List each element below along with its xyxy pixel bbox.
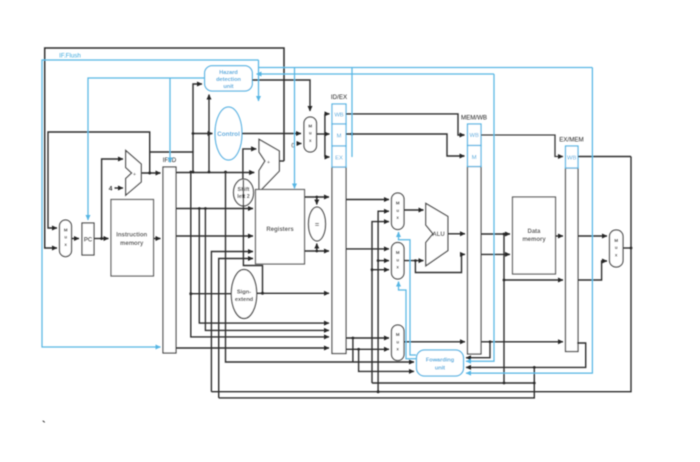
wire: branch target feedback big rectangle <box>45 48 284 248</box>
svg-text:IF.Flush: IF.Flush <box>59 53 81 60</box>
svg-text:Control: Control <box>217 131 240 138</box>
wire: immediate field to ID/EX <box>176 347 329 349</box>
svg-text:x: x <box>396 215 399 220</box>
mux forward A <box>392 193 405 230</box>
wire: sign-extend input from instruction field <box>189 292 192 295</box>
svg-text:Data: Data <box>527 229 541 235</box>
wire: mux A to ALU <box>404 209 424 211</box>
wire: zero mux fanout to WB M EX boxes <box>317 133 325 135</box>
equality comparator <box>309 207 326 241</box>
wire: rs to forwarding unit (long bottom line) <box>226 172 415 362</box>
svg-text:ID/EX: ID/EX <box>331 94 347 101</box>
svg-text:u: u <box>396 257 399 262</box>
wire: mux to PC <box>72 238 80 240</box>
svg-text:M: M <box>308 124 312 129</box>
svg-text:EX: EX <box>335 156 343 162</box>
wire: shift left 2 output to branch adder <box>243 149 256 180</box>
wire: rt field up to hazard unit bottom <box>208 95 210 173</box>
svg-text:Instruction: Instruction <box>116 233 147 239</box>
mux PC-source (far left) <box>60 220 72 257</box>
svg-text:memory: memory <box>120 241 144 247</box>
svg-text:+: + <box>267 160 270 166</box>
wire (blue): hazard IF/ID write down to IF/ID <box>169 78 171 163</box>
adder Add (PC+4) <box>126 151 142 196</box>
PC register <box>82 223 94 255</box>
wire: branch adder output to feedback rectangle <box>279 160 284 162</box>
wire: final mux output wrap around bottom to registers write data <box>623 247 631 249</box>
wire: write register number from wrap line into registers <box>211 252 253 392</box>
wire: rt down joins forwarding input line <box>352 338 354 362</box>
svg-text:EX/MEM: EX/MEM <box>559 137 583 144</box>
svg-text:Fowarding: Fowarding <box>426 358 455 364</box>
svg-text:Sign-: Sign- <box>237 290 251 296</box>
svg-text:u: u <box>64 235 67 240</box>
control unit <box>215 107 242 160</box>
wire: ALU result bypass below data memory <box>503 233 506 236</box>
svg-text:unit: unit <box>435 366 445 372</box>
wire: read register 2 <box>176 235 253 237</box>
svg-text:M: M <box>614 238 618 243</box>
svg-text:Registers: Registers <box>266 227 294 233</box>
wire: ALU result to final mux <box>578 261 607 280</box>
svg-text:x: x <box>396 347 399 352</box>
data memory <box>513 197 556 274</box>
wire: memory data to final mux <box>578 235 607 237</box>
wire (blue): long hazard feedback from right <box>257 73 495 75</box>
svg-text:M: M <box>396 201 400 206</box>
wire: rt field down to ID/EX <box>199 209 329 324</box>
wire: read register 1 <box>176 208 253 210</box>
wire: PC to instruction memory <box>94 238 109 240</box>
wire (blue): hazard top line to ID/EX right vertical <box>258 60 260 101</box>
wire: MEM/WB WB control to EX/MEM WB box <box>481 135 563 157</box>
wire: EX/MEM WB control out right to far right vertical <box>578 156 631 158</box>
wire: write data to data memory <box>481 253 510 255</box>
wire: sign extend output to ID/EX <box>257 292 329 294</box>
wire: ID/EX rd to dest mux <box>346 348 389 350</box>
svg-text:u: u <box>615 245 618 250</box>
wire: mux B to ALU and store data to EX/MEM <box>404 260 424 262</box>
svg-text:WB: WB <box>334 113 343 119</box>
wire: data memory output to EX/MEM <box>556 235 564 237</box>
wire (blue): flush/stall arrow down into registers <box>294 68 296 189</box>
instruction memory <box>111 200 154 277</box>
svg-text:MEM/WB: MEM/WB <box>461 115 487 122</box>
svg-text:=: = <box>315 222 319 229</box>
wire: sign-extend output up through shift left 2 <box>243 206 262 294</box>
svg-text:ALU: ALU <box>432 232 444 238</box>
svg-text:`: ` <box>42 420 46 432</box>
svg-text:memory: memory <box>522 237 546 243</box>
svg-text:u: u <box>309 131 312 136</box>
mux control-zero <box>304 117 317 152</box>
registers file <box>256 190 305 265</box>
wire: PC+4 feedback to PC mux and branch adder top input <box>141 172 160 174</box>
wire: ID/EX M to MEM/WB M box <box>346 134 465 156</box>
svg-text:detection: detection <box>216 77 241 83</box>
svg-text:WB: WB <box>567 156 576 162</box>
wire: ID/EX read data2 to forward mux B <box>346 248 389 250</box>
wire: rs field down to ID/EX <box>191 172 329 337</box>
wire (blue): forward A control <box>399 232 417 355</box>
wire: ID/EX WB to MEM/WB WB box <box>346 114 465 135</box>
svg-text:x: x <box>615 252 618 257</box>
svg-text:4: 4 <box>109 186 113 193</box>
wire: forwarded EX/MEM ALU value around bottom to muxes <box>372 222 389 383</box>
shift left 2 unit <box>234 179 254 206</box>
wire (blue): forward B control <box>399 282 417 359</box>
svg-text:extend: extend <box>235 297 254 303</box>
wire: write register number from EX/MEM down to wrap line and forwarding unit <box>466 343 586 367</box>
wire: PC value up to Add <box>102 159 123 239</box>
svg-text:M: M <box>337 134 342 140</box>
wire: control output to zero mux <box>242 133 301 135</box>
svg-text:M: M <box>396 250 400 255</box>
mux destination register <box>392 325 405 361</box>
wire (blue): MEM/WB RegWrite down to forwarding unit <box>466 74 494 361</box>
wire: ID/EX rt to dest mux <box>346 337 389 339</box>
forwarding unit <box>417 350 464 376</box>
wire: opcode up to hazard unit <box>193 84 202 172</box>
svg-text:+: + <box>133 172 136 178</box>
wire: write data from wrap line into registers <box>219 259 253 398</box>
wire: dest mux to MEM/WB <box>404 341 465 343</box>
mux write-back (far right) <box>610 230 624 267</box>
ALU <box>426 203 448 265</box>
svg-text:M: M <box>396 332 400 337</box>
wire (blue): hazard PCWrite down to PC <box>88 78 205 220</box>
svg-text:unit: unit <box>223 84 233 90</box>
svg-text:M: M <box>64 228 68 233</box>
svg-text:Hazard: Hazard <box>219 70 238 76</box>
svg-text:x: x <box>396 265 399 270</box>
svg-text:M: M <box>472 155 477 161</box>
svg-text:u: u <box>396 339 399 344</box>
wire: opcode to Control <box>192 132 195 135</box>
wire: ID/EX read data1 to forward mux A <box>346 199 389 201</box>
svg-text:u: u <box>396 208 399 213</box>
mux forward B <box>392 243 405 280</box>
wire: ALU result to MEM/WB <box>448 233 465 235</box>
hazard detection unit <box>205 66 253 91</box>
svg-text:x: x <box>64 242 67 247</box>
wire: rd down to forwarding unit <box>359 349 414 371</box>
wire: instruction memory to IF/ID <box>154 238 161 240</box>
adder branch target <box>259 139 279 192</box>
svg-text:PC: PC <box>84 238 93 244</box>
svg-text:x: x <box>309 138 312 143</box>
wire: forwarded MEM/WB write-back value to muxes <box>377 390 380 393</box>
wire: read data 1 to ID/EX <box>305 196 330 198</box>
wire: instruction bus top <box>176 172 254 174</box>
wire: hazard unit stall output to control mux <box>252 80 310 111</box>
wire: address to data memory <box>481 233 510 235</box>
svg-text:WB: WB <box>470 133 479 139</box>
wire: read data 2 to ID/EX <box>305 250 330 252</box>
wire: rd field down to ID/EX <box>205 209 329 331</box>
